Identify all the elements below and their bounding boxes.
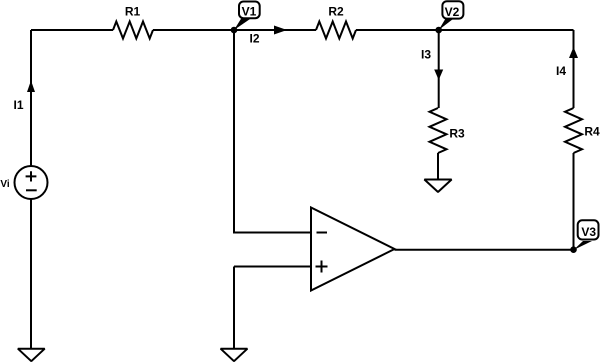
voltage source plus sign <box>26 171 37 181</box>
wire left vertical <box>30 30 32 166</box>
resistor R1 <box>113 22 153 39</box>
svg-text:Vi: Vi <box>0 179 9 190</box>
resistor R3 <box>430 108 447 153</box>
wire from R1 to node V1 <box>153 29 234 31</box>
node label tail V3 <box>574 241 593 250</box>
op-amp plus pin sign <box>316 261 328 273</box>
svg-text:I4: I4 <box>556 64 566 78</box>
ground below non-inverting input <box>221 349 248 362</box>
current arrow I4 <box>569 47 578 58</box>
voltage source minus sign <box>26 189 37 191</box>
wire op-amp non-inverting input <box>234 266 311 268</box>
node label box V2 <box>442 1 463 19</box>
wire non-inverting input down to ground <box>233 267 235 349</box>
junction node V1 <box>231 27 238 34</box>
svg-text:R2: R2 <box>328 5 344 19</box>
resistor R4 <box>565 108 582 153</box>
wire node V2 down to R3 <box>438 30 440 108</box>
junction node V3 <box>570 246 577 253</box>
op-amp minus pin sign <box>317 232 328 234</box>
svg-text:R1: R1 <box>125 5 141 19</box>
svg-text:I3: I3 <box>421 47 431 61</box>
current arrow I1 <box>27 81 35 93</box>
svg-text:R3: R3 <box>449 126 465 140</box>
wire from node V1 to R2 <box>234 29 316 31</box>
ground below R3 <box>424 180 451 193</box>
node label tail V1 <box>234 18 252 30</box>
node label box V3 <box>578 220 599 239</box>
node label box V1 <box>239 2 260 19</box>
wire from node V2 to top-right corner <box>439 29 574 31</box>
wire node V1 down to op-amp inverting input <box>234 30 311 233</box>
svg-text:I1: I1 <box>13 98 23 112</box>
wire Vi to ground <box>30 199 32 348</box>
op-amp U1 <box>311 208 395 291</box>
node label tail V2 <box>439 19 454 30</box>
svg-text:V1: V1 <box>242 5 257 19</box>
svg-text:V2: V2 <box>445 5 460 19</box>
svg-text:R4: R4 <box>584 124 600 138</box>
svg-text:I2: I2 <box>249 32 259 46</box>
junction node V2 <box>435 27 442 34</box>
wire right vertical down to R4 <box>573 30 575 108</box>
wire op-amp output to node V3 <box>395 249 574 251</box>
wire R3 to ground <box>437 153 439 179</box>
voltage source Vi <box>15 166 48 199</box>
current arrow I3 <box>434 70 443 81</box>
wire from R2 to node V2 <box>356 29 439 31</box>
resistor R2 <box>316 22 356 39</box>
wire top-left horizontal <box>31 29 113 31</box>
ground below Vi <box>18 349 45 362</box>
current arrow I2 <box>274 26 287 35</box>
wire from R4 down to node V3 <box>573 153 575 250</box>
svg-text:V3: V3 <box>581 225 596 239</box>
